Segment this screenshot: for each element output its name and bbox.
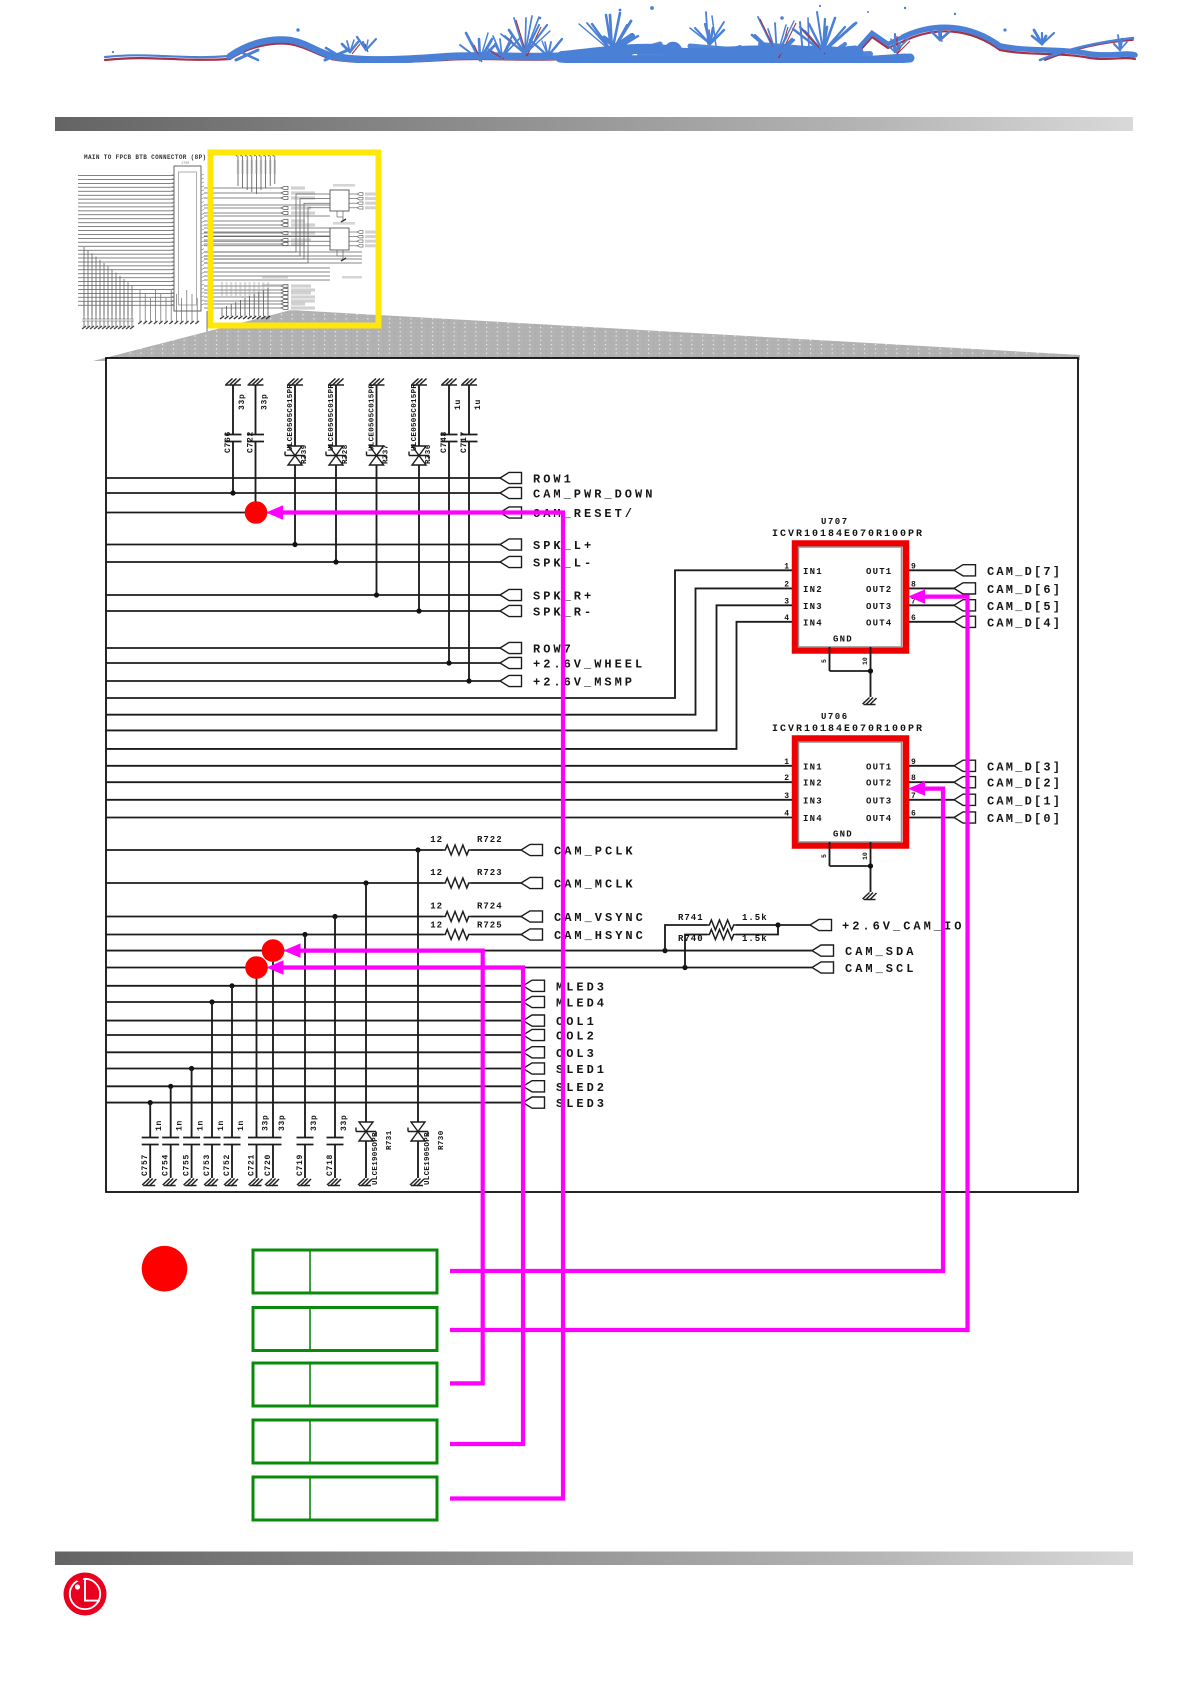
svg-text:IN3: IN3	[803, 796, 823, 806]
svg-text:1n: 1n	[237, 1120, 246, 1131]
svg-text:1: 1	[784, 758, 789, 767]
svg-text:CAM_D[7]: CAM_D[7]	[987, 565, 1062, 579]
svg-text:CAM_D[3]: CAM_D[3]	[987, 760, 1062, 774]
wire net CAM_PCLK	[107, 849, 443, 851]
svg-text:OUT2: OUT2	[866, 585, 892, 595]
svg-text:R730: R730	[438, 1130, 446, 1150]
svg-text:ULCE0505C015PR: ULCE0505C015PR	[411, 384, 419, 451]
svg-text:GND: GND	[833, 830, 853, 840]
svg-text:ULCE0505C015PR: ULCE0505C015PR	[328, 384, 336, 451]
svg-text:R723: R723	[477, 868, 503, 878]
wire net CAM_D[6]	[909, 587, 954, 589]
junction on MLED4	[209, 999, 214, 1004]
wire net CAM_D[1]	[909, 799, 954, 801]
ground symbol U707	[863, 698, 877, 706]
svg-text:33p: 33p	[238, 393, 247, 410]
svg-text:3: 3	[784, 792, 789, 801]
wire net CAM_D[2]	[909, 781, 954, 783]
wire net CAM_D[7]	[909, 569, 954, 571]
svg-text:OUT2: OUT2	[866, 779, 892, 789]
svg-text:ROW1: ROW1	[533, 473, 574, 487]
svg-text:1n: 1n	[197, 1120, 206, 1131]
junction on SLED2	[168, 1084, 173, 1089]
connector arrow CAM_D[2]	[954, 777, 976, 788]
svg-text:C753: C753	[203, 1154, 212, 1176]
connector arrow CAM_RESET/	[500, 507, 522, 518]
main schematic border	[106, 358, 1078, 1192]
connector arrow CAM_D[5]	[954, 600, 976, 611]
svg-text:1n: 1n	[155, 1120, 164, 1131]
svg-text:33p: 33p	[262, 1114, 271, 1131]
connector arrow CAM_SDA	[812, 945, 834, 956]
svg-text:1.5k: 1.5k	[742, 934, 768, 944]
junction on CAM_PCLK	[415, 847, 420, 852]
svg-text:R724: R724	[477, 902, 503, 912]
thumbnail left staircase with capacitors	[83, 247, 85, 319]
svg-text:1n: 1n	[217, 1120, 226, 1131]
red marker dot on CAM_RESET/ (C722 junction)	[245, 501, 268, 524]
svg-text:C721: C721	[248, 1154, 257, 1176]
junction on CAM_MCLK	[363, 880, 368, 885]
op-amp/IC U707 ICVR10184E070R100PR	[795, 544, 906, 651]
junction on SLED1	[189, 1066, 194, 1071]
connector arrow MLED3	[523, 980, 545, 991]
green table box 5	[253, 1477, 437, 1520]
thumbnail connector J700	[174, 166, 201, 311]
wire net to U706 IN4	[107, 817, 799, 819]
svg-text:CAM_D[4]: CAM_D[4]	[987, 616, 1062, 630]
halftone zoom wedge	[93, 310, 1080, 361]
connector arrow CAM_PWR_DOWN	[500, 487, 522, 498]
wire net SPK_L+	[107, 544, 500, 546]
svg-text:CAM_D[6]: CAM_D[6]	[987, 583, 1062, 597]
large red marker circle	[142, 1246, 188, 1292]
wire net SPK_L-	[107, 561, 500, 563]
svg-text:8: 8	[911, 580, 916, 589]
green table box 3	[253, 1363, 437, 1406]
junction on CAM_HSYNC	[302, 932, 307, 937]
svg-text:IN1: IN1	[803, 762, 823, 772]
svg-text:CAM_PWR_DOWN: CAM_PWR_DOWN	[533, 488, 655, 502]
connector arrow SPK_R-	[500, 605, 522, 616]
connector arrow CAM_D[3]	[954, 760, 976, 771]
resistor R724 value 12	[443, 912, 471, 922]
resistor R723 value 12	[443, 878, 471, 888]
svg-text:IN3: IN3	[803, 602, 823, 612]
connector arrow COL1	[523, 1015, 545, 1026]
junction CAM_SDA / R741	[662, 948, 667, 953]
svg-text:9: 9	[911, 562, 916, 571]
svg-text:MAIN TO FPCB BTB CONNECTOR (8P: MAIN TO FPCB BTB CONNECTOR (8P)	[84, 154, 206, 161]
connector arrow COL2	[523, 1029, 545, 1040]
capacitor C766 33p	[225, 379, 241, 386]
connector arrow CAM_PCLK	[521, 844, 543, 855]
capacitor C752 1n	[231, 986, 233, 1137]
capacitor C755 1n	[191, 1069, 193, 1138]
connector arrow SPK_L+	[500, 539, 522, 550]
svg-text:OUT3: OUT3	[866, 602, 892, 612]
svg-text:CAM_PCLK: CAM_PCLK	[554, 845, 636, 859]
connector arrow +2.6V_CAM_IO	[810, 919, 832, 930]
thumbnail left wires	[78, 175, 174, 177]
svg-text:U707: U707	[821, 517, 849, 527]
svg-text:C755: C755	[183, 1154, 192, 1176]
op-amp/IC U706 ICVR10184E070R100PR	[795, 739, 906, 846]
connector arrow MLED4	[523, 996, 545, 1007]
svg-text:CAM_D[0]: CAM_D[0]	[987, 812, 1062, 826]
svg-text:C719: C719	[296, 1154, 305, 1176]
connector arrow CAM_D[4]	[954, 616, 976, 627]
wire net +2.6V_CAM_IO	[778, 924, 810, 926]
wire net COL1	[107, 1020, 523, 1022]
resistor R725 value 12	[443, 930, 471, 940]
connector arrow CAM_HSYNC	[521, 929, 543, 940]
junction +2.6V_CAM_IO	[775, 922, 780, 927]
svg-text:R736: R736	[425, 444, 433, 464]
connector arrow +2.6V_MSMP	[500, 675, 522, 686]
TVS diode R739 ULCE0505C015PR	[287, 379, 303, 386]
wire net to U707 IN4	[107, 622, 799, 749]
LG logo	[64, 1573, 107, 1616]
svg-text:CAM_SCL: CAM_SCL	[845, 962, 916, 976]
thumbnail misc bottom verticals	[139, 290, 141, 322]
top gradient divider bar	[55, 117, 1133, 131]
junction on CAM_VSYNC	[332, 914, 337, 919]
wire net SPK_R-	[107, 610, 500, 612]
svg-text:IN2: IN2	[803, 585, 823, 595]
svg-text:ICVR10184E070R100PR: ICVR10184E070R100PR	[772, 529, 924, 540]
wire net to U707 IN2	[107, 588, 799, 714]
svg-text:10: 10	[862, 852, 869, 860]
svg-text:ICVR10184E070R100PR: ICVR10184E070R100PR	[772, 724, 924, 735]
svg-text:12: 12	[430, 902, 443, 912]
connector arrow ROW1	[500, 472, 522, 483]
svg-text:J700: J700	[181, 162, 189, 166]
svg-text:33p: 33p	[278, 1114, 287, 1131]
TVS diode R730 ULCE1905OPR	[417, 850, 419, 1122]
svg-text:U706: U706	[821, 712, 849, 722]
green table box 4	[253, 1420, 437, 1463]
connector arrow +2.6V_WHEEL	[500, 657, 522, 668]
svg-text:R728: R728	[342, 444, 350, 464]
svg-text:R725: R725	[477, 921, 503, 931]
connector arrow SPK_R+	[500, 589, 522, 600]
svg-text:+2.6V_MSMP: +2.6V_MSMP	[533, 676, 635, 690]
wire net SLED3	[107, 1102, 523, 1104]
svg-text:CAM_HSYNC: CAM_HSYNC	[554, 929, 646, 943]
svg-text:CAM_D[1]: CAM_D[1]	[987, 794, 1062, 808]
connector arrow CAM_D[6]	[954, 583, 976, 594]
svg-text:3: 3	[784, 597, 789, 606]
svg-text:1n: 1n	[176, 1120, 185, 1131]
svg-text:CAM_SDA: CAM_SDA	[845, 945, 916, 959]
svg-text:OUT1: OUT1	[866, 762, 892, 772]
connector arrow CAM_D[1]	[954, 794, 976, 805]
svg-text:OUT1: OUT1	[866, 567, 892, 577]
connector arrow CAM_D[0]	[954, 812, 976, 823]
wire net ROW7	[107, 647, 500, 649]
svg-text:6: 6	[911, 614, 916, 623]
svg-text:C722: C722	[247, 431, 256, 453]
connector arrow SPK_L-	[500, 556, 522, 567]
svg-text:C757: C757	[141, 1154, 150, 1176]
wire net +2.6V_MSMP	[107, 680, 500, 682]
wire net COL3	[107, 1051, 523, 1053]
svg-text:5: 5	[821, 854, 828, 858]
svg-text:10: 10	[862, 657, 869, 665]
svg-text:ULCE0505C015PR: ULCE0505C015PR	[287, 384, 295, 451]
highlight path CAM_SCL to green box 4	[280, 968, 523, 1445]
capacitor C748 1u	[441, 379, 457, 386]
wire net CAM_SCL	[107, 967, 812, 969]
svg-text:9: 9	[911, 758, 916, 767]
svg-text:IN4: IN4	[803, 814, 823, 824]
connector arrow SLED3	[523, 1097, 545, 1108]
connector arrow SLED2	[523, 1081, 545, 1092]
wire net to U706 IN1	[107, 765, 799, 767]
TVS diode R728 ULCE0505C015PR	[328, 379, 344, 386]
svg-text:OUT4: OUT4	[866, 814, 892, 824]
wire net CAM_VSYNC	[107, 916, 443, 918]
wire net COL2	[107, 1034, 523, 1036]
ground symbol U706	[863, 893, 877, 901]
svg-text:R722: R722	[477, 835, 503, 845]
red marker dot on CAM_SDA	[262, 939, 285, 962]
highlight path CAM_SDA to green box 3	[297, 951, 483, 1384]
TVS diode R737 ULCE0505C015PR	[369, 379, 385, 386]
bottom gradient divider bar	[55, 1552, 1133, 1566]
ground pins U706	[829, 842, 831, 866]
svg-text:1: 1	[784, 562, 789, 571]
wire net CAM_PWR_DOWN	[107, 492, 500, 494]
wire net CAM_D[4]	[909, 621, 954, 623]
capacitor C718 33p	[334, 917, 336, 1138]
svg-text:4: 4	[784, 614, 789, 623]
svg-text:+2.6V_WHEEL: +2.6V_WHEEL	[533, 658, 645, 672]
connector arrow ROW7	[500, 642, 522, 653]
highlight path U707 OUT to green box 2	[450, 597, 968, 1330]
thumbnail mini schematic (contents of yellow box)	[204, 153, 378, 319]
highlight path CAM_RESET/ to green box 5	[280, 513, 563, 1499]
wire net +2.6V_WHEEL	[107, 662, 500, 664]
capacitor C757 1n	[149, 1103, 151, 1137]
wire net to U706 IN3	[107, 799, 799, 801]
red marker dot on CAM_SCL	[245, 956, 268, 979]
svg-text:CAM_MCLK: CAM_MCLK	[554, 878, 636, 892]
svg-text:4: 4	[784, 810, 789, 819]
capacitor C720 33p	[272, 951, 274, 1137]
svg-text:33p: 33p	[340, 1114, 349, 1131]
capacitor C754 1n	[170, 1086, 172, 1137]
svg-text:GND: GND	[833, 635, 853, 645]
wire net CAM_D[0]	[909, 817, 954, 819]
svg-text:OUT3: OUT3	[866, 796, 892, 806]
svg-text:OUT4: OUT4	[866, 618, 892, 628]
svg-text:12: 12	[430, 868, 443, 878]
wire net to U706 IN2	[107, 781, 799, 783]
svg-text:R741: R741	[678, 913, 704, 923]
svg-text:CAM_D[2]: CAM_D[2]	[987, 777, 1062, 791]
capacitor C722 33p	[248, 379, 264, 386]
svg-text:CAM_D[5]: CAM_D[5]	[987, 600, 1062, 614]
connector arrow CAM_VSYNC	[521, 911, 543, 922]
svg-text:IN2: IN2	[803, 779, 823, 789]
connector arrow CAM_SCL	[812, 962, 834, 973]
junction on SLED3	[148, 1100, 153, 1105]
svg-text:6: 6	[911, 810, 916, 819]
connector arrow CAM_D[7]	[954, 565, 976, 576]
wire net SLED2	[107, 1085, 523, 1087]
wire net MLED3	[107, 985, 523, 987]
svg-text:IN4: IN4	[803, 618, 823, 628]
wire net CAM_HSYNC	[107, 934, 443, 936]
connector arrow SLED1	[523, 1063, 545, 1074]
capacitor C721 33p	[256, 968, 258, 1138]
wire net CAM_RESET/	[107, 512, 500, 514]
resistor R740 1.5k	[685, 935, 707, 968]
svg-text:ROW7: ROW7	[533, 643, 574, 657]
svg-text:ULCE0505C015PR: ULCE0505C015PR	[369, 384, 377, 451]
svg-text:R737: R737	[383, 444, 391, 464]
svg-text:C720: C720	[264, 1154, 273, 1176]
connector arrow COL3	[523, 1047, 545, 1058]
resistor R722 value 12	[443, 845, 471, 855]
capacitor C717 1u	[461, 379, 477, 386]
wire net SLED1	[107, 1068, 523, 1070]
svg-text:R731: R731	[386, 1130, 394, 1150]
svg-text:CAM_VSYNC: CAM_VSYNC	[554, 911, 646, 925]
svg-text:IN1: IN1	[803, 567, 823, 577]
TVS diode R731 ULCE1905OPR	[365, 883, 367, 1122]
svg-text:C754: C754	[162, 1154, 171, 1176]
svg-text:1.5k: 1.5k	[742, 913, 768, 923]
capacitor C753 1n	[211, 1002, 213, 1137]
svg-text:C718: C718	[326, 1154, 335, 1176]
svg-text:1u: 1u	[454, 399, 463, 410]
svg-text:ULCE1905OPR: ULCE1905OPR	[372, 1132, 380, 1185]
wire net CAM_SDA	[107, 950, 812, 952]
svg-text:C752: C752	[223, 1154, 232, 1176]
svg-text:ULCE1905OPR: ULCE1905OPR	[424, 1132, 432, 1185]
green table box 2	[253, 1308, 437, 1351]
capacitor C719 33p	[304, 935, 306, 1138]
wire net to U707 IN1	[107, 570, 799, 698]
wire net MLED4	[107, 1001, 523, 1003]
connector arrow CAM_MCLK	[521, 877, 543, 888]
svg-text:R740: R740	[678, 934, 704, 944]
svg-text:+2.6V_CAM_IO: +2.6V_CAM_IO	[842, 920, 964, 934]
svg-text:33p: 33p	[310, 1114, 319, 1131]
svg-text:C748: C748	[440, 431, 449, 453]
thumbnail overview schematic (top-left)	[78, 154, 207, 341]
junction CAM_SCL / R740	[682, 965, 687, 970]
ground pins U707	[829, 647, 831, 671]
junction on MLED3	[229, 983, 234, 988]
svg-text:8: 8	[911, 774, 916, 783]
svg-text:12: 12	[430, 835, 443, 845]
highlight path U706 OUT to green box 1	[450, 789, 943, 1271]
svg-text:33p: 33p	[261, 393, 270, 410]
resistor R741 1.5k	[665, 925, 707, 951]
svg-text:1u: 1u	[474, 399, 483, 410]
wire net CAM_D[3]	[909, 765, 954, 767]
svg-text:C766: C766	[224, 431, 233, 453]
svg-text:C717: C717	[460, 431, 469, 453]
svg-text:7: 7	[911, 792, 916, 801]
wire net CAM_D[5]	[909, 604, 954, 606]
svg-text:R739: R739	[301, 444, 309, 464]
svg-text:5: 5	[821, 659, 828, 663]
svg-text:2: 2	[784, 580, 789, 589]
svg-text:2: 2	[784, 774, 789, 783]
TVS diode R736 ULCE0505C015PR	[411, 379, 427, 386]
yellow highlight box	[211, 153, 379, 326]
wire net to U707 IN3	[107, 605, 799, 730]
wire net ROW1	[107, 477, 500, 479]
svg-text:12: 12	[430, 921, 443, 931]
wire net CAM_MCLK	[107, 882, 443, 884]
green table box 1	[253, 1250, 437, 1293]
wire net SPK_R+	[107, 594, 500, 596]
